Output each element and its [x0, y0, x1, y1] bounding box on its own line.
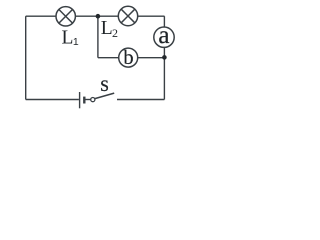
- svg-text:S: S: [100, 78, 109, 95]
- wire: bottom left segment: [26, 99, 79, 101]
- meter b (ammeter): [119, 47, 138, 69]
- meter a (ammeter): [154, 22, 174, 49]
- svg-text:L2: L2: [101, 18, 118, 40]
- wire: branch vertical from node A: [97, 16, 99, 58]
- wire: top horizontal: [26, 15, 165, 17]
- node B junction dot: [162, 55, 167, 60]
- svg-text:b: b: [123, 47, 133, 69]
- lamp L2: [118, 6, 137, 25]
- node A junction dot: [96, 14, 101, 19]
- wire: branch horizontal through meter b: [98, 57, 164, 59]
- battery cell: long plate: [79, 92, 81, 108]
- wire: right vertical: [163, 16, 165, 99]
- wire: left vertical: [25, 16, 27, 99]
- lamp L1: [56, 7, 75, 26]
- svg-text:a: a: [158, 22, 169, 49]
- wire: battery to switch pivot: [86, 99, 91, 101]
- switch S blade: [95, 93, 114, 99]
- switch S pivot circle: [91, 98, 95, 102]
- wire: bottom right segment: [117, 99, 164, 101]
- battery cell: short thick plate: [83, 97, 85, 104]
- svg-text:L1: L1: [62, 28, 79, 49]
